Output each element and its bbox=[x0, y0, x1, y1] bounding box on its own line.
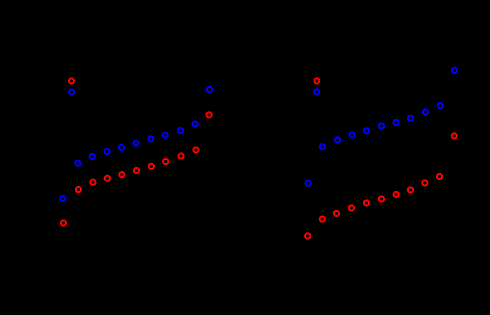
right panel legend markers bbox=[314, 78, 319, 94]
left panel legend markers bbox=[69, 78, 74, 94]
right panel blue series bbox=[306, 68, 458, 186]
right panel red series bbox=[305, 133, 457, 238]
left panel blue series bbox=[60, 87, 212, 201]
left panel red series bbox=[61, 112, 212, 225]
